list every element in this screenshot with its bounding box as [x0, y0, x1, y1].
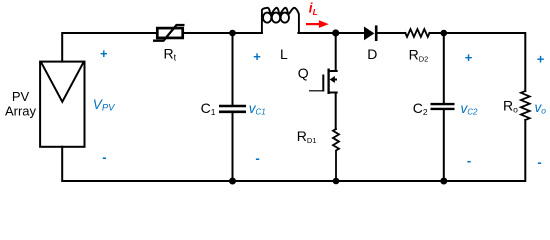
svg-text:+: +	[100, 46, 108, 61]
svg-text:PV: PV	[12, 89, 30, 104]
svg-text:+: +	[253, 49, 261, 64]
svg-text:+: +	[537, 52, 545, 67]
svg-text:D: D	[367, 46, 377, 62]
svg-text:Array: Array	[5, 104, 37, 119]
svg-text:-: -	[467, 153, 471, 168]
svg-text:+: +	[465, 50, 473, 65]
svg-text:-: -	[537, 155, 541, 170]
svg-text:Q: Q	[298, 65, 309, 81]
svg-text:-: -	[102, 149, 106, 164]
svg-text:L: L	[280, 46, 288, 62]
svg-text:-: -	[255, 151, 259, 166]
